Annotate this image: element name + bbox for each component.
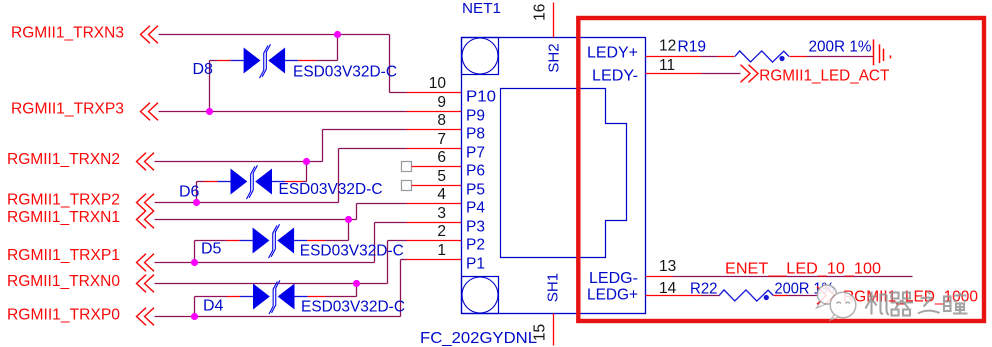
wire D8 right vertical [337, 35, 339, 61]
wire R22 to port [788, 295, 819, 297]
junction TRXP2/D6 [193, 199, 200, 206]
wire TRXP0 to P1 vertical [400, 260, 402, 317]
svg-text:RGMII1_TRXN3: RGMII1_TRXN3 [11, 25, 124, 42]
svg-text:10: 10 [429, 75, 447, 92]
shield pad SH2 square [462, 38, 499, 75]
wire to pin7 [339, 148, 407, 150]
svg-text:RGMII1_LED_ACT: RGMII1_LED_ACT [759, 67, 889, 84]
wire D4 left vertical [194, 297, 196, 317]
svg-text:7: 7 [437, 131, 446, 148]
svg-text:P1: P1 [466, 255, 485, 272]
svg-text:LEDY+: LEDY+ [587, 45, 638, 62]
connector NET1 body [462, 38, 646, 314]
junction TRXN0/D4 [353, 280, 360, 287]
pin 12 stub [646, 56, 701, 58]
wire D6 right vertical [306, 162, 308, 182]
wire D8 left vertical [209, 61, 211, 112]
svg-text:P2: P2 [466, 236, 485, 253]
ESD diode D5 [253, 224, 295, 258]
svg-text:LEDG-: LEDG- [589, 270, 638, 287]
wire D4 right lead [295, 296, 308, 298]
svg-text:ENET__LED_10_100: ENET__LED_10_100 [725, 261, 881, 278]
pin P7 stub [407, 148, 462, 150]
pin P5 stub [412, 185, 462, 187]
svg-text:LEDY-: LEDY- [592, 68, 638, 85]
svg-text:D4: D4 [203, 298, 224, 315]
wire to pin8 [323, 129, 407, 131]
svg-text:ESD03V32D-C: ESD03V32D-C [300, 243, 404, 260]
pin P4 stub [407, 203, 462, 205]
resistor R19 left lead [718, 56, 735, 58]
svg-text:SH1: SH1 [545, 273, 562, 302]
wire D4 right vertical [356, 284, 358, 297]
svg-text:3: 3 [437, 205, 446, 222]
wire TRXP1 to P3 vertical [374, 223, 376, 263]
junction TRXP1/D5 [191, 259, 198, 266]
resistor R19 right lead [790, 56, 807, 58]
port chevron RGMII1_TRXP0 [137, 308, 155, 326]
port chevron RGMII1_LED_1000 [817, 287, 835, 305]
svg-text:P6: P6 [466, 162, 485, 179]
svg-text:8: 8 [437, 112, 446, 129]
ESD diode D6 [231, 165, 273, 199]
svg-text:RGMII1_TRXN0: RGMII1_TRXN0 [7, 273, 120, 290]
svg-text:P8: P8 [466, 125, 485, 142]
pin P9 stub [407, 111, 462, 113]
wire to pin1 [401, 259, 407, 261]
wire pin13 ENET__LED_10_100 [673, 276, 913, 278]
svg-text:RGMII1_TRXP0: RGMII1_TRXP0 [7, 307, 120, 324]
junction TRXN3/D8 [334, 31, 341, 38]
pin P8 stub [407, 129, 462, 131]
resistor R19 [735, 51, 789, 62]
highlight frame [578, 18, 984, 321]
svg-text:2: 2 [437, 223, 446, 240]
svg-text:4: 4 [437, 186, 446, 203]
wire to pin2 [388, 240, 407, 242]
svg-text:14: 14 [659, 280, 677, 297]
svg-text:LEDG+: LEDG+ [587, 287, 638, 304]
watermark logo bubbles [817, 285, 856, 320]
shield pad SH1 circle [462, 277, 498, 313]
no-connect square pin P6 [402, 162, 412, 172]
no-connect square pin P5 [402, 181, 412, 191]
pin 11 stub [646, 73, 702, 75]
pin P10 stub [407, 92, 462, 94]
svg-text:SH2: SH2 [546, 43, 563, 72]
wire RGMII1_TRXN1 horizontal [155, 219, 357, 221]
wire RGMII1_TRXN2 horizontal [155, 161, 323, 163]
pin P2 stub [407, 240, 462, 242]
pin 14 stub [646, 295, 702, 297]
wire D6 left vertical [196, 182, 198, 203]
wire pin11 to port [702, 73, 741, 75]
svg-text:FC_202GYDNL: FC_202GYDNL [420, 330, 537, 347]
svg-text:ESD03V32D-C: ESD03V32D-C [301, 299, 405, 316]
wire RGMII1_TRXP1 horizontal [155, 262, 375, 264]
svg-text:D6: D6 [179, 184, 200, 201]
wire D5 right vertical [348, 220, 350, 241]
wire RGMII1_TRXN0 horizontal [155, 283, 388, 285]
wire pin14 to R22 [702, 295, 720, 297]
svg-text:15: 15 [532, 324, 549, 341]
port chevron RGMII1_TRXP1 [137, 254, 155, 272]
wire to pin10 [390, 92, 407, 94]
wire to pin4 [357, 203, 407, 205]
wire to pin3 [375, 222, 407, 224]
wire D4 left lead [195, 296, 228, 298]
wire TRXN1 to P4 vertical [356, 204, 358, 220]
port chevron RGMII1_TRXP2 [137, 194, 155, 212]
pin P3 stub [407, 222, 462, 224]
svg-text:13: 13 [659, 258, 676, 275]
svg-text:P7: P7 [466, 144, 485, 161]
port chevron RGMII1_TRXP3 [141, 103, 159, 121]
svg-text:9: 9 [437, 94, 446, 111]
svg-text:R19: R19 [678, 39, 707, 56]
svg-text:RGMII1_TRXP3: RGMII1_TRXP3 [11, 101, 124, 118]
port chevron RGMII1_TRXN3 [141, 26, 159, 44]
svg-text:P3: P3 [466, 218, 485, 235]
pin 16 stub [553, 3, 555, 38]
pin P1 stub [407, 259, 462, 261]
resistor R22 right lead [774, 295, 788, 297]
svg-text:16: 16 [532, 4, 549, 21]
wire pin12 to R19 [701, 56, 718, 58]
svg-text:P10: P10 [466, 88, 496, 105]
ESD diode D4 [253, 280, 295, 314]
wire D6 left lead [197, 181, 205, 183]
pin 15 stub [553, 314, 555, 346]
svg-text:NET1: NET1 [462, 0, 501, 17]
ESD diode D8 [244, 44, 286, 78]
wire D5 right lead [294, 240, 307, 242]
wire TRXN3 to P10 vertical [389, 35, 391, 93]
svg-text:11: 11 [659, 57, 675, 74]
svg-text:P5: P5 [466, 181, 485, 198]
svg-text:R22: R22 [690, 281, 718, 298]
wire D8 right lead [285, 60, 298, 62]
junction TRXP3/D8 [206, 108, 213, 115]
pin 13 stub [646, 276, 673, 278]
watermark text 机器之瞳 [866, 292, 968, 316]
svg-text:ESD03V32D-C: ESD03V32D-C [293, 64, 397, 81]
svg-text:P4: P4 [466, 199, 485, 216]
port chevron RGMII1_TRXN0 [137, 275, 155, 293]
svg-text:5: 5 [437, 168, 446, 185]
wire RGMII1_TRXP2 horizontal [155, 202, 339, 204]
junction TRXP0/D4 [191, 313, 198, 320]
wire RGMII1_TRXP3 horizontal [159, 111, 407, 113]
svg-text:RGMII1_TRXP2: RGMII1_TRXP2 [7, 192, 120, 209]
svg-text:200R 1%: 200R 1% [809, 39, 872, 56]
power bar symbol (LED supply) [874, 39, 891, 65]
wire RGMII1_TRXN3 horizontal [159, 34, 390, 36]
wire D5 left vertical [194, 241, 196, 263]
wire D6 right lead [272, 181, 285, 183]
wire RGMII1_TRXP0 horizontal [155, 316, 401, 318]
junction TRXN2/D6 [303, 158, 310, 165]
junction TRXN1/D5 [345, 216, 352, 223]
wire TRXN2 to P8 vertical [322, 130, 324, 162]
port chevron RGMII1_TRXN2 [137, 153, 155, 171]
svg-text:6: 6 [437, 149, 446, 166]
port chevron RGMII1_LED_ACT [741, 65, 759, 83]
resistor R22 [719, 290, 773, 301]
svg-text:D8: D8 [193, 61, 214, 78]
svg-text:RGMII1_TRXN1: RGMII1_TRXN1 [7, 209, 120, 226]
svg-text:D5: D5 [201, 241, 222, 258]
RJ45 jack inner outline [501, 89, 627, 258]
wire D8 left lead [210, 60, 218, 62]
svg-text:1: 1 [437, 242, 446, 259]
svg-text:RGMII1_TRXP1: RGMII1_TRXP1 [7, 247, 120, 264]
shield pad SH1 square [462, 277, 499, 314]
wire TRXN0 to P2 vertical [387, 241, 389, 284]
port chevron RGMII1_TRXN1 [137, 211, 155, 229]
svg-text:P9: P9 [466, 107, 485, 124]
shield pad SH2 circle [462, 38, 498, 74]
svg-text:12: 12 [659, 38, 676, 55]
svg-text:RGMII1_TRXN2: RGMII1_TRXN2 [7, 151, 120, 168]
wire D5 left lead [195, 240, 227, 242]
svg-text:ESD03V32D-C: ESD03V32D-C [279, 181, 383, 198]
pin P6 stub [412, 166, 462, 168]
wire R19 to power bar [807, 56, 874, 58]
wire TRXP2 to P7 vertical [338, 149, 340, 203]
